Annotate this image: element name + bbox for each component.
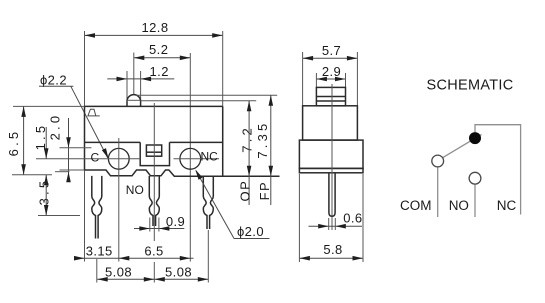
- pin NO center line: [153, 103, 155, 241]
- left dim 6.5 top ext: [13, 105, 85, 107]
- body top edge: [85, 105, 223, 107]
- svg-text:OP: OP: [237, 180, 252, 202]
- side pin: [329, 173, 335, 217]
- svg-text:NC: NC: [497, 198, 517, 213]
- side button rect: [316, 87, 345, 105]
- button side right: [140, 101, 142, 106]
- svg-text:7.2: 7.2: [240, 125, 255, 153]
- OP extension line: [141, 100, 256, 102]
- side button line FP: [316, 96, 345, 98]
- body left edge: [84, 106, 86, 170]
- contact block divider: [146, 151, 161, 153]
- body middle notch: [140, 142, 169, 165]
- side center line: [331, 84, 333, 230]
- side bottom strip: [299, 168, 363, 172]
- dim 2.0 line: [68, 118, 70, 176]
- ext tick y171.7: [55, 171, 70, 173]
- ext line body left edge (12.8 left / 3.15 left): [84, 31, 86, 262]
- svg-text:5.08: 5.08: [105, 265, 132, 280]
- dim 0.9 line: [134, 228, 184, 230]
- button plunger arc: [127, 95, 141, 102]
- dim line 5.08: [97, 278, 208, 280]
- lever arm: [443, 134, 482, 157]
- pin NC: [203, 176, 213, 229]
- svg-text:ϕ2.2: ϕ2.2: [40, 73, 67, 88]
- corner flag symbol: [88, 109, 100, 116]
- ext 2.9 right: [345, 73, 347, 87]
- svg-text:NO: NO: [449, 198, 469, 213]
- label phi2.2 underline: [39, 85, 73, 87]
- COM wire: [437, 167, 439, 217]
- body step ledge right: [170, 141, 223, 143]
- dim 0.6 line: [309, 225, 363, 227]
- FP extension line: [136, 94, 277, 96]
- dim 6.5 line: [23, 106, 25, 174]
- body right edge: [222, 106, 224, 176]
- svg-text:5.8: 5.8: [323, 242, 342, 257]
- ext 5.7 left: [302, 52, 304, 105]
- NO wire: [474, 184, 476, 217]
- dim 5.8 line: [299, 257, 363, 259]
- label phi2.0 underline: [234, 238, 270, 240]
- pin C: [92, 176, 102, 239]
- ext line NC hole center vertical: [189, 53, 191, 262]
- body bottom edge zigzag: [85, 170, 280, 176]
- body step ledge left: [85, 141, 141, 143]
- ext line body right edge (12.8 right): [222, 31, 224, 176]
- ext 2.9 left: [315, 73, 317, 87]
- ext 0.9 left: [149, 218, 151, 232]
- svg-text:FP: FP: [257, 181, 272, 201]
- COM contact circle: [432, 155, 444, 167]
- left dim 6.5 bottom ext: [12, 174, 52, 176]
- svg-text:6.5: 6.5: [144, 243, 163, 258]
- svg-text:C: C: [90, 150, 99, 164]
- leader phi2.0: [196, 171, 234, 239]
- dim 3.5 line: [45, 175, 47, 216]
- dim 12.8 line: [85, 34, 223, 36]
- svg-text:SCHEMATIC: SCHEMATIC: [427, 77, 514, 93]
- C hole vertical center line: [118, 138, 120, 262]
- dim 7.35 line: [270, 95, 272, 205]
- svg-text:12.8: 12.8: [142, 20, 169, 35]
- dim line 3.15/6.5: [76, 257, 194, 259]
- svg-text:5.2: 5.2: [149, 42, 168, 57]
- dim 5.7 line: [303, 57, 358, 59]
- dim 5.2 line: [134, 57, 191, 59]
- ext line button center (5.2 left): [133, 53, 135, 95]
- pin NC center extension: [207, 230, 209, 283]
- svg-text:NC: NC: [201, 149, 219, 163]
- ext 5.8 left: [298, 174, 300, 262]
- terminal hole C circle: [108, 148, 129, 169]
- ext 5.7 right: [356, 52, 358, 105]
- pin C center extension: [96, 259, 98, 283]
- side upper body: [303, 106, 358, 140]
- ext 5.8 right: [362, 174, 364, 262]
- svg-text:2.9: 2.9: [322, 64, 341, 79]
- pin NO: [149, 176, 159, 226]
- side button line OP: [316, 100, 345, 102]
- button side left: [126, 101, 128, 106]
- svg-text:3.15: 3.15: [86, 243, 113, 258]
- dim 7.2 line: [248, 101, 250, 205]
- svg-text:6.5: 6.5: [6, 129, 21, 157]
- ext line y147.8: [60, 147, 92, 149]
- svg-text:0.6: 0.6: [343, 211, 362, 226]
- ext line button left side (1.2 left): [126, 71, 128, 101]
- NC contact dot filled: [469, 132, 481, 144]
- dim 2.9 line: [316, 78, 345, 80]
- side lower body: [299, 140, 363, 168]
- ext line button right side (1.2 right): [140, 71, 142, 101]
- ext 0.9 right: [158, 218, 160, 232]
- svg-text:3.5: 3.5: [36, 178, 51, 206]
- svg-text:ϕ2.0: ϕ2.0: [237, 224, 264, 239]
- contact block rect: [146, 145, 161, 156]
- ext 0.6 right: [334, 218, 336, 230]
- svg-text:NO: NO: [126, 183, 144, 197]
- svg-text:7.35: 7.35: [255, 121, 270, 159]
- terminal hole NC circle: [180, 148, 201, 169]
- ext 0.6 left: [328, 218, 330, 230]
- button chord OP mark: [127, 99, 141, 101]
- wire top to NC: [475, 125, 521, 215]
- svg-text:2.0: 2.0: [48, 113, 63, 141]
- ext line y215.5: [38, 215, 80, 217]
- NO contact circle: [469, 172, 481, 184]
- ext line y170: [60, 169, 85, 171]
- svg-text:COM: COM: [400, 198, 432, 213]
- dim 1.5 line: [45, 127, 47, 159]
- svg-text:1.2: 1.2: [150, 64, 169, 79]
- svg-text:5.7: 5.7: [322, 43, 341, 58]
- NC hole horizontal center line: [174, 158, 220, 160]
- C hole horizontal center line: [36, 158, 140, 160]
- leader phi2.2: [71, 86, 108, 158]
- svg-text:5.08: 5.08: [165, 265, 192, 280]
- dim 1.2 line: [107, 78, 174, 80]
